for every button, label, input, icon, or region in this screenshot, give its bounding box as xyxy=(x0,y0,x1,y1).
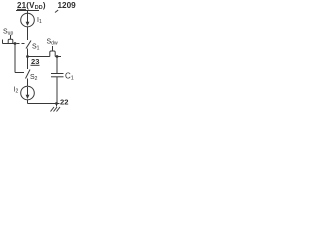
label 1209 xyxy=(58,1,77,10)
wire I2 to ground rail xyxy=(27,100,29,104)
wire I1 to switch S1 xyxy=(27,27,29,41)
label S2 xyxy=(30,74,38,82)
label 22 xyxy=(60,98,68,107)
ground hatch 3 xyxy=(57,107,61,112)
svg-text:23: 23 xyxy=(31,57,39,66)
hop on Sup wire xyxy=(8,39,13,43)
switch S1 blade xyxy=(26,41,31,49)
wire hop to cap junction xyxy=(55,56,61,58)
ground hatch 1 xyxy=(51,107,55,112)
ground stub xyxy=(56,104,58,107)
label Sdw xyxy=(47,39,58,47)
Sup wire xyxy=(3,43,16,45)
wire junction to capacitor C1 xyxy=(56,57,58,74)
svg-text:1209: 1209 xyxy=(58,1,77,10)
label 23 xyxy=(31,57,39,66)
junction dot at capacitor branch xyxy=(56,55,59,58)
svg-text:Sdw: Sdw xyxy=(47,39,58,47)
Sup wire end tick xyxy=(2,40,4,44)
top rail VDD xyxy=(16,10,39,12)
svg-text:S1: S1 xyxy=(32,44,40,52)
wire C1 to ground rail xyxy=(56,77,58,104)
label Sup xyxy=(3,29,13,37)
underline of 21 xyxy=(17,8,26,10)
leader tick of 1209 xyxy=(55,10,58,13)
label I1 xyxy=(37,17,42,25)
svg-text:C1: C1 xyxy=(65,72,74,82)
wire S2 to I2 xyxy=(27,79,29,87)
label I2 xyxy=(14,87,19,95)
label 21(VDD) xyxy=(17,1,46,11)
wire node 23 down to switch S2 xyxy=(27,57,29,70)
wire node 23 to hop xyxy=(28,56,50,58)
control line bend to S2 xyxy=(15,72,24,74)
ground hatch 2 xyxy=(54,107,58,112)
ground rail xyxy=(28,103,60,105)
svg-text:I2: I2 xyxy=(14,87,19,95)
current source I2 xyxy=(21,86,35,100)
wire hop under Sdw xyxy=(50,51,55,57)
leader Sup xyxy=(10,35,12,40)
dashed control line to S1 xyxy=(17,43,26,45)
control line down to S2 xyxy=(14,44,16,73)
node 23 junction dot xyxy=(26,55,29,58)
wire rail to I1 xyxy=(27,11,29,15)
label C1 xyxy=(65,72,74,82)
current source I1 xyxy=(21,13,35,27)
ground junction dot xyxy=(55,102,58,105)
wire S1 to node 23 xyxy=(27,49,29,57)
svg-text:I1: I1 xyxy=(37,17,42,25)
svg-text:22: 22 xyxy=(60,98,68,107)
switch S2 blade xyxy=(26,70,31,79)
svg-text:S2: S2 xyxy=(30,74,38,82)
svg-text:Sup: Sup xyxy=(3,29,13,37)
leader Sdw to hop xyxy=(52,46,54,51)
capacitor C1 xyxy=(51,73,64,75)
underline of 23 xyxy=(31,64,40,66)
Sup control junction dot xyxy=(14,42,17,45)
label S1 xyxy=(32,44,40,52)
